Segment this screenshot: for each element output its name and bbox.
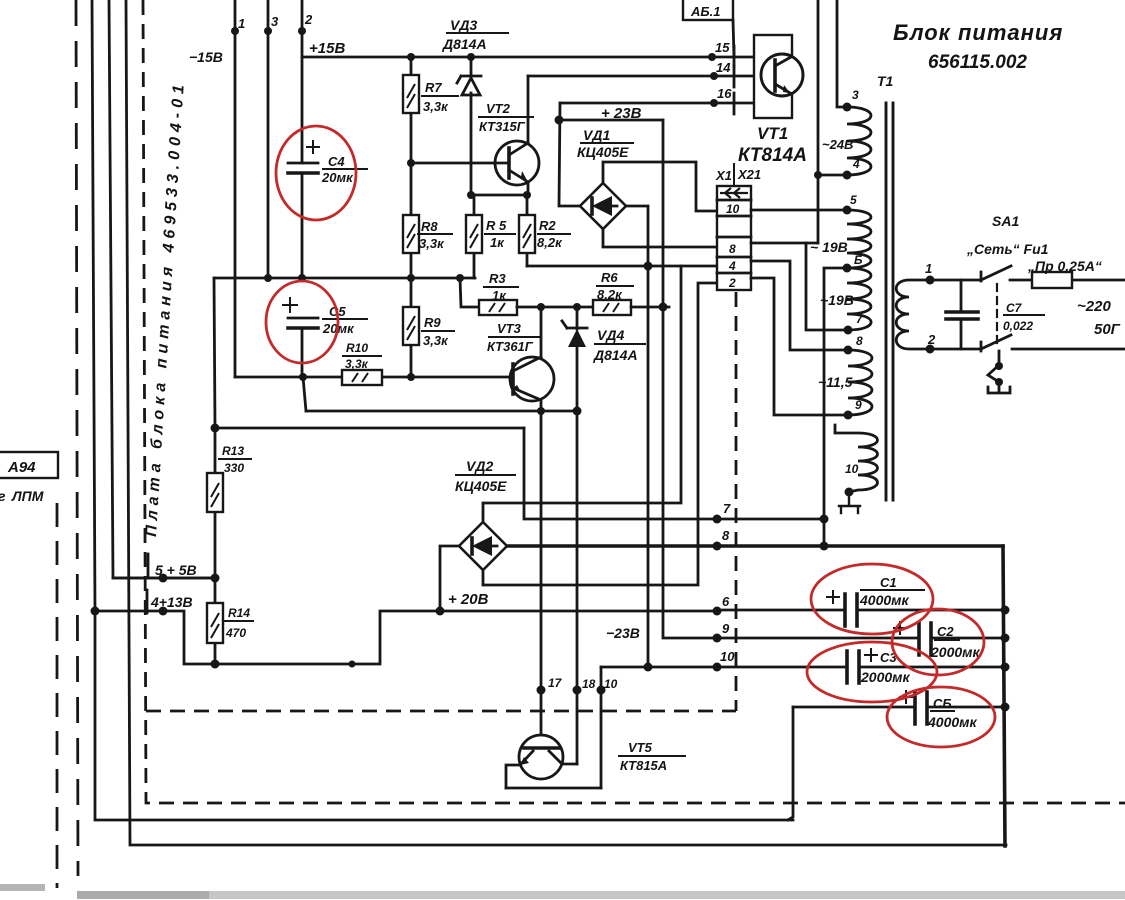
svg-text:SA1: SA1 xyxy=(992,213,1019,229)
wire vertical bus C xyxy=(126,0,1006,845)
junction pin10 X21 xyxy=(713,663,722,672)
pin 15 tick xyxy=(733,46,736,67)
switch SA1 pole1 xyxy=(981,266,1011,281)
junction bus A xyxy=(91,607,100,616)
junction pin8 X21 xyxy=(713,542,722,551)
wire trafo pin6 lead xyxy=(824,268,847,546)
svg-text:4+13В: 4+13В xyxy=(150,594,193,610)
wire cell8 to trafo pin7 xyxy=(806,243,848,330)
svg-text:~19В: ~19В xyxy=(820,292,854,308)
wire trafo pin3 feed xyxy=(837,0,847,107)
wire X1 cell4 right to trafo pin8 xyxy=(751,261,848,350)
zener VD4 xyxy=(576,307,579,411)
wire VD2 right dc rail y546 xyxy=(507,544,1003,548)
svg-text:СБ: СБ xyxy=(933,696,952,711)
junction VD3 bottom xyxy=(467,191,475,199)
svg-text:8,2к: 8,2к xyxy=(597,287,623,302)
wire VD1 bottom to X1 pin8 xyxy=(603,229,716,247)
junction R13 top xyxy=(211,424,220,433)
red ellipse C6 xyxy=(887,687,995,747)
wire 4+13V xyxy=(95,611,717,664)
wire vertical bus A xyxy=(92,0,793,820)
junction VT2 base rail xyxy=(407,159,415,167)
wire cell4 drop xyxy=(483,266,681,522)
junction R13-R14 xyxy=(211,574,220,583)
svg-text:10: 10 xyxy=(720,649,735,664)
junction pin4 xyxy=(159,607,168,616)
dashed frame line left inner bottom xyxy=(56,503,59,888)
svg-text:„Пр 0,25А“: „Пр 0,25А“ xyxy=(1027,258,1102,274)
svg-text:14: 14 xyxy=(716,60,731,75)
svg-text:470: 470 xyxy=(225,626,246,640)
transistor VT3 xyxy=(510,357,554,401)
wire X1 cell2 right to trafo pin9 xyxy=(751,278,848,415)
svg-text:А94: А94 xyxy=(7,459,36,476)
resistor R5 xyxy=(473,195,476,278)
connector X1 box xyxy=(717,186,751,290)
svg-text:~24В: ~24В xyxy=(822,137,853,152)
svg-text:VД3: VД3 xyxy=(450,17,477,33)
wire rail 16 xyxy=(560,102,754,105)
svg-text:С1: С1 xyxy=(880,575,897,590)
svg-text:3,3к: 3,3к xyxy=(419,236,445,251)
wire VT2 base xyxy=(411,162,509,165)
svg-text:VT1: VT1 xyxy=(757,124,788,143)
svg-text:8: 8 xyxy=(722,528,730,543)
svg-text:2: 2 xyxy=(304,12,313,27)
svg-text:VT3: VT3 xyxy=(497,321,522,336)
wire VT2 collector to rail14 xyxy=(527,76,530,143)
wire rail 14 xyxy=(528,75,775,78)
junction C5 bottom xyxy=(299,373,307,381)
pin 16 tick xyxy=(733,93,736,114)
junction R6 right xyxy=(659,303,668,312)
svg-text:4: 4 xyxy=(728,259,736,273)
connector key arrow xyxy=(720,188,748,198)
svg-text:8: 8 xyxy=(856,334,863,348)
svg-text:3: 3 xyxy=(852,88,859,102)
pin 4 tick xyxy=(146,590,149,613)
wire +15V rail xyxy=(302,56,754,59)
junction pin18 xyxy=(573,686,582,695)
transistor VT1 xyxy=(761,54,803,96)
junction x824 pin7 wire xyxy=(820,515,829,524)
wire to pin7 X21 xyxy=(524,428,824,519)
wire R3 drop xyxy=(460,278,479,307)
primary winding xyxy=(896,280,930,349)
box AB.1 xyxy=(683,0,733,20)
wire pin 3 vertical xyxy=(267,0,270,278)
junction +20V xyxy=(436,607,445,616)
svg-text:КТ315Г: КТ315Г xyxy=(479,119,526,134)
zener VD3 xyxy=(470,57,473,195)
dashed frame line left outer xyxy=(76,0,78,876)
svg-text:+ 20В: + 20В xyxy=(448,591,489,608)
svg-text:~ 19В: ~ 19В xyxy=(810,239,848,255)
svg-text:6: 6 xyxy=(722,594,730,609)
wire vertical bus B xyxy=(109,0,215,578)
capacitor C3 xyxy=(717,666,1005,669)
wire VT3 emitter xyxy=(540,400,543,411)
board boundary dashed bottom of upper section xyxy=(146,710,736,713)
svg-text:VT5: VT5 xyxy=(628,740,653,755)
ground symbol xyxy=(839,492,860,513)
svg-text:656115.002: 656115.002 xyxy=(928,52,1027,73)
junction x648 end xyxy=(644,663,653,672)
svg-text:2000мк: 2000мк xyxy=(860,669,911,685)
wire X1 cell10 right to trafo pin5 xyxy=(751,209,847,212)
svg-text:2: 2 xyxy=(728,276,736,290)
transistor VT1 package box xyxy=(754,35,792,118)
junction pin17 xyxy=(537,686,546,695)
svg-text:R2: R2 xyxy=(539,218,556,233)
node A94 box xyxy=(0,452,58,478)
svg-text:VД1: VД1 xyxy=(583,127,610,143)
svg-text:КТ361Г: КТ361Г xyxy=(487,339,534,354)
svg-text:VД4: VД4 xyxy=(597,327,624,343)
junction pin 15 xyxy=(708,53,716,61)
wire pin 2 vertical xyxy=(301,0,304,163)
wire -23V vertical xyxy=(663,120,717,638)
svg-text:18: 18 xyxy=(582,677,596,691)
transistor VT2 xyxy=(495,141,539,185)
resistor R14 xyxy=(214,578,217,664)
junction x648-y266 xyxy=(644,262,653,271)
svg-text:3,3к: 3,3к xyxy=(423,99,449,114)
board boundary dashed right vertical xyxy=(735,292,738,711)
svg-text:7: 7 xyxy=(723,501,731,516)
svg-text:1: 1 xyxy=(925,261,932,276)
red ellipse C4 xyxy=(276,126,356,220)
junction pin 1 xyxy=(231,27,239,35)
svg-text:С7: С7 xyxy=(1006,301,1023,315)
resistor R7 xyxy=(410,57,413,163)
resistor R13 xyxy=(214,428,217,578)
red ellipse C2 xyxy=(892,609,984,675)
junction pin10 bottom xyxy=(597,686,606,695)
junction VT2 emitter xyxy=(523,191,531,199)
wire pin 1 vertical xyxy=(234,0,237,377)
junction pin 2 xyxy=(298,27,306,35)
pin 5 tick xyxy=(147,554,150,577)
svg-text:Д814А: Д814А xyxy=(442,36,487,52)
svg-text:Б: Б xyxy=(854,253,863,267)
winding 3-4 24V xyxy=(847,107,871,175)
wire R2 bottom rail y266 xyxy=(527,265,716,268)
svg-text:−15В: −15В xyxy=(189,49,223,65)
wire pin7 X21 end xyxy=(713,515,722,524)
junction VT3 collector xyxy=(537,303,545,311)
wire R13 top rail xyxy=(215,427,524,430)
junction pin 14 xyxy=(710,72,718,80)
svg-text:8: 8 xyxy=(729,242,736,256)
capacitor C4 xyxy=(288,162,318,165)
junction R14 bottom xyxy=(211,660,220,669)
junction pin 16 xyxy=(710,99,718,107)
svg-text:3: 3 xyxy=(271,14,279,29)
junction VT3 emitter rail xyxy=(537,407,545,415)
wire base rail y377 xyxy=(235,376,513,379)
wire X1 cell8 right xyxy=(751,242,818,245)
junction transformer drop x824 xyxy=(820,542,829,551)
winding 6-7 19V xyxy=(847,268,871,330)
svg-text:Д814А: Д814А xyxy=(593,347,638,363)
svg-text:5 + 5В: 5 + 5В xyxy=(155,562,197,578)
svg-text:10: 10 xyxy=(604,677,618,691)
junction pin 3 xyxy=(264,27,272,35)
svg-text:R10: R10 xyxy=(346,341,368,355)
wire emitter rail y411 xyxy=(306,410,577,413)
junction wire y664 xyxy=(349,661,356,668)
wire VT3 collector xyxy=(540,307,543,357)
resistor R9 xyxy=(410,278,413,377)
svg-text:330: 330 xyxy=(224,461,244,475)
svg-text:R14: R14 xyxy=(228,606,250,620)
wire VD1 right acline xyxy=(626,206,648,667)
wire cell2 drop xyxy=(483,283,717,585)
svg-text:17: 17 xyxy=(548,676,563,690)
svg-text:Блок питания: Блок питания xyxy=(893,20,1063,45)
svg-text:9: 9 xyxy=(855,398,862,412)
svg-text:1: 1 xyxy=(238,16,245,31)
wire AB.1 drop xyxy=(733,20,734,57)
transformer core xyxy=(886,103,893,500)
svg-text:R7: R7 xyxy=(425,80,442,95)
wire pin18 drop xyxy=(576,411,579,764)
winding 10 xyxy=(835,425,878,492)
svg-text:−23В: −23В xyxy=(606,625,640,641)
capacitor C1 xyxy=(717,609,1005,612)
svg-text:г: г xyxy=(0,488,6,504)
svg-text:С4: С4 xyxy=(328,154,345,169)
junction pin6 X21 xyxy=(713,607,722,616)
capacitor C5 xyxy=(288,317,318,320)
svg-text:~11,5: ~11,5 xyxy=(818,374,853,390)
svg-text:КТ814А: КТ814А xyxy=(738,145,807,166)
svg-text:+15В: +15В xyxy=(309,40,345,57)
svg-text:R 5: R 5 xyxy=(486,218,507,233)
svg-text:ЛПМ: ЛПМ xyxy=(11,488,44,504)
junction C4-C5 node xyxy=(298,274,306,282)
svg-text:+ 23В: + 23В xyxy=(601,105,642,122)
capacitor C2 xyxy=(717,637,1005,640)
svg-text:КТ815А: КТ815А xyxy=(620,758,667,773)
svg-text:Х1: Х1 xyxy=(715,168,732,183)
svg-text:15: 15 xyxy=(715,40,730,55)
svg-text:АБ.1: АБ.1 xyxy=(690,4,720,19)
svg-text:3,3к: 3,3к xyxy=(345,357,369,371)
junction R9 bottom xyxy=(407,373,415,381)
wire VT2 emitter down xyxy=(527,182,530,195)
wire emitter node y195 xyxy=(471,194,528,197)
wire C6 left drop xyxy=(788,707,793,820)
svg-text:16: 16 xyxy=(717,86,732,101)
svg-text:9: 9 xyxy=(722,621,730,636)
board boundary dashed xyxy=(143,0,1125,803)
red ellipse C3 xyxy=(807,642,937,702)
switch SA1 pole2 xyxy=(981,335,1011,351)
svg-text:~220: ~220 xyxy=(1077,298,1111,315)
fuse Fu1 xyxy=(1010,279,1125,282)
svg-text:10: 10 xyxy=(726,202,740,216)
red ellipse C5 xyxy=(266,281,338,363)
svg-text:4000мк: 4000мк xyxy=(927,714,978,730)
wire pin10 drop xyxy=(600,667,603,788)
wire mains line2 xyxy=(930,348,981,351)
wire pin10 bottom rail xyxy=(601,666,717,669)
resistor R6 xyxy=(593,300,631,315)
wire VT5 emitter rail xyxy=(506,787,601,790)
svg-text:R6: R6 xyxy=(601,270,618,285)
bridge rectifier VD2 xyxy=(459,522,507,570)
svg-text:КЦ405Е: КЦ405Е xyxy=(455,478,507,494)
resistor R2 xyxy=(526,195,529,266)
wire mains line1 xyxy=(930,279,981,282)
wire R6 to -23V line xyxy=(631,306,669,309)
wire VD1 top to X1 pin10 xyxy=(603,162,717,211)
svg-text:1к: 1к xyxy=(490,235,505,250)
bridge rectifier VD1 xyxy=(580,183,626,229)
svg-text:Х21: Х21 xyxy=(737,167,761,182)
junction pin3 bottom xyxy=(264,274,272,282)
wire top feed x818 xyxy=(817,0,820,243)
wire right rail xyxy=(1003,546,1005,846)
wire 16 rail drop to bridge VD1 xyxy=(559,103,580,206)
svg-text:0,022: 0,022 xyxy=(1003,319,1033,333)
junction R8 bottom xyxy=(407,274,415,282)
transistor VT5 xyxy=(519,735,563,779)
svg-text:20мк: 20мк xyxy=(321,170,354,185)
svg-text:1к: 1к xyxy=(492,288,507,303)
wire VD2 left to +20V xyxy=(440,546,459,611)
junction x818 pin4 xyxy=(814,171,822,179)
junction +23V tap xyxy=(555,116,564,125)
svg-text:3,3к: 3,3к xyxy=(423,333,449,348)
junction VD4 top xyxy=(573,303,581,311)
switch detent xyxy=(988,351,1010,393)
wire C5 drop to y411 xyxy=(303,377,306,411)
junction VD4 bottom xyxy=(573,407,582,416)
red ellipse C1 xyxy=(811,564,933,634)
resistor R3 xyxy=(479,300,517,315)
svg-text:VД2: VД2 xyxy=(466,458,493,474)
wire R3 to R6 xyxy=(517,306,593,309)
winding 5-6 19V xyxy=(847,210,871,268)
resistor R10 xyxy=(342,370,382,385)
wire pin4 lead xyxy=(818,174,847,177)
svg-text:КЦ405Е: КЦ405Е xyxy=(577,144,629,160)
scan gray bar bottom xyxy=(77,891,1125,899)
wire +23V xyxy=(559,119,663,122)
svg-text:R13: R13 xyxy=(222,444,244,458)
winding 8-9 11.5V xyxy=(848,350,872,415)
svg-text:5: 5 xyxy=(850,193,857,207)
svg-text:4: 4 xyxy=(852,157,860,171)
switch link dashed xyxy=(996,284,998,345)
junction pin9 X21 xyxy=(713,634,722,643)
svg-text:VT2: VT2 xyxy=(486,101,511,116)
junction VD3 top xyxy=(467,53,475,61)
capacitor C7 xyxy=(960,280,963,349)
pin 14 tick xyxy=(733,66,736,87)
svg-text:R9: R9 xyxy=(424,315,441,330)
svg-text:„Сеть“ Fu1: „Сеть“ Fu1 xyxy=(966,241,1049,257)
wire rail y278 xyxy=(214,277,475,280)
svg-text:2: 2 xyxy=(927,332,936,347)
wire pin17 drop xyxy=(540,411,543,748)
svg-text:50Г: 50Г xyxy=(1094,321,1121,338)
svg-text:С2: С2 xyxy=(937,624,954,639)
svg-text:T1: T1 xyxy=(877,73,894,89)
wire y278 to R13 xyxy=(214,278,215,428)
wire 5+5V xyxy=(113,577,215,580)
svg-text:R3: R3 xyxy=(489,271,506,286)
capacitor C6 xyxy=(793,706,1005,709)
svg-text:4000мк: 4000мк xyxy=(859,592,910,608)
svg-text:R8: R8 xyxy=(421,219,438,234)
svg-text:8,2к: 8,2к xyxy=(537,235,563,250)
svg-text:2000мк: 2000мк xyxy=(930,644,981,660)
resistor R8 xyxy=(410,163,413,278)
junction R3 drop xyxy=(456,274,464,282)
junction pin5 xyxy=(159,574,168,583)
svg-text:10: 10 xyxy=(845,462,859,476)
junction R7 top xyxy=(407,53,415,61)
